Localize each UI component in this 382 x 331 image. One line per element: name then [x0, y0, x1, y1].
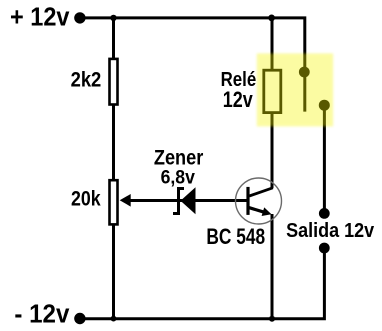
- transistor Q1 emitter line: [248, 207, 265, 212]
- salida lower dot: [319, 243, 330, 254]
- transistor Q1 base bar: [246, 187, 249, 215]
- wire: horizontal from potentiometer wiper through zener to transistor base: [128, 199, 248, 202]
- wire: bottom rail from -12v terminal to bottom-right corner, up to lower salida dot: [80, 248, 325, 319]
- svg-text:12v: 12v: [223, 87, 254, 112]
- terminal -12v dot: [74, 313, 85, 324]
- transistor Q1 emitter arrowhead: [262, 207, 272, 216]
- transistor Q1 collector line: [249, 188, 272, 196]
- svg-text:2k2: 2k2: [71, 69, 102, 92]
- zener diode D1 triangle (anode): [181, 187, 196, 214]
- svg-text:Salida 12v: Salida 12v: [286, 220, 375, 242]
- salida upper dot: [319, 208, 330, 219]
- zener diode D1 cathode bar with hooks: [173, 189, 184, 214]
- resistor R 2k2: [110, 59, 118, 105]
- wire: right column from relay NO contact down to upper salida dot: [323, 105, 326, 213]
- wire: relay coil column from top rail junction down to collector: [271, 18, 274, 188]
- svg-text:20k: 20k: [71, 188, 101, 211]
- junction top coil: [268, 15, 275, 22]
- wire: left column x=113 from top rail to bottom rail: [112, 18, 115, 319]
- potentiometer wiper arrow: [120, 194, 131, 207]
- terminal +12v dot: [74, 12, 85, 23]
- wire: emitter column down to bottom rail: [271, 214, 274, 319]
- relay highlight yellow overlay: [257, 53, 333, 126]
- svg-text:Zener: Zener: [154, 146, 203, 169]
- svg-text:- 12v: - 12v: [14, 300, 70, 328]
- relay switch NO contact dot: [319, 100, 330, 111]
- svg-text:6,8v: 6,8v: [161, 168, 196, 189]
- relay switch common contact dot: [299, 67, 310, 78]
- relay coil: [264, 70, 281, 112]
- transistor Q1 circle: [236, 178, 282, 224]
- junction top-left: [110, 15, 116, 21]
- svg-text:BC 548: BC 548: [206, 224, 265, 249]
- junction bottom-left: [111, 316, 117, 322]
- svg-text:+ 12v: + 12v: [10, 3, 70, 31]
- potentiometer 20k body: [110, 180, 118, 224]
- wire: top rail from +12v terminal to top-right corner, down to relay switch: [80, 18, 305, 112]
- junction bottom emitter: [269, 316, 275, 322]
